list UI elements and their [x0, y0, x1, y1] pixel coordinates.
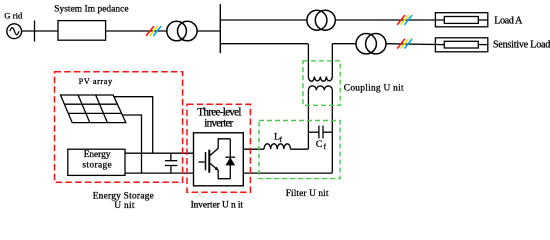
svg-text:Filter U nit: Filter U nit — [286, 189, 329, 199]
svg-text:inverter: inverter — [204, 118, 233, 130]
svg-text:Inverter U n it: Inverter U n it — [191, 201, 244, 211]
svg-text:U nit: U nit — [114, 201, 135, 211]
svg-text:Energy: Energy — [84, 150, 111, 160]
svg-text:Sensitive Load: Sensitive Load — [493, 40, 550, 51]
svg-text:C: C — [316, 139, 323, 150]
svg-text:PV array: PV array — [79, 77, 113, 86]
svg-text:storage: storage — [82, 160, 111, 170]
svg-text:Coupling U nit: Coupling U nit — [344, 83, 404, 93]
svg-text:G rid: G rid — [4, 11, 23, 21]
svg-text:System Im pedance: System Im pedance — [54, 5, 128, 15]
svg-text:Load A: Load A — [494, 15, 523, 26]
